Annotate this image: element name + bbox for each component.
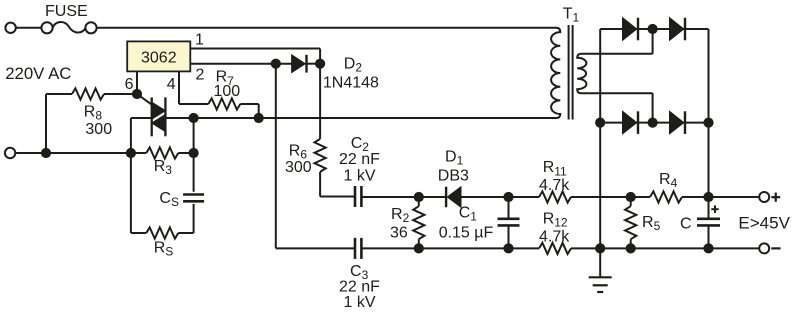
- svg-text:1N4148: 1N4148: [323, 75, 379, 92]
- svg-text:300: 300: [285, 159, 312, 176]
- svg-text:E>45V: E>45V: [738, 213, 790, 232]
- svg-text:1 kV: 1 kV: [344, 167, 376, 184]
- svg-text:FUSE: FUSE: [45, 3, 88, 20]
- svg-text:36: 36: [390, 225, 408, 242]
- svg-text:C: C: [680, 215, 692, 232]
- svg-text:100: 100: [214, 83, 241, 100]
- svg-text:2: 2: [196, 66, 205, 83]
- svg-text:6: 6: [125, 76, 134, 93]
- svg-text:300: 300: [85, 121, 112, 138]
- svg-text:1 kV: 1 kV: [344, 294, 376, 311]
- svg-text:0.15 µF: 0.15 µF: [439, 225, 494, 242]
- svg-text:220V AC: 220V AC: [5, 64, 71, 83]
- svg-text:4.7k: 4.7k: [539, 177, 570, 194]
- svg-text:4.7k: 4.7k: [539, 229, 570, 246]
- svg-text:DB3: DB3: [438, 168, 469, 185]
- svg-text:1: 1: [195, 32, 204, 49]
- svg-text:22 nF: 22 nF: [339, 151, 380, 168]
- svg-text:22 nF: 22 nF: [339, 279, 380, 296]
- svg-text:3062: 3062: [141, 49, 177, 66]
- svg-text:4: 4: [167, 76, 176, 93]
